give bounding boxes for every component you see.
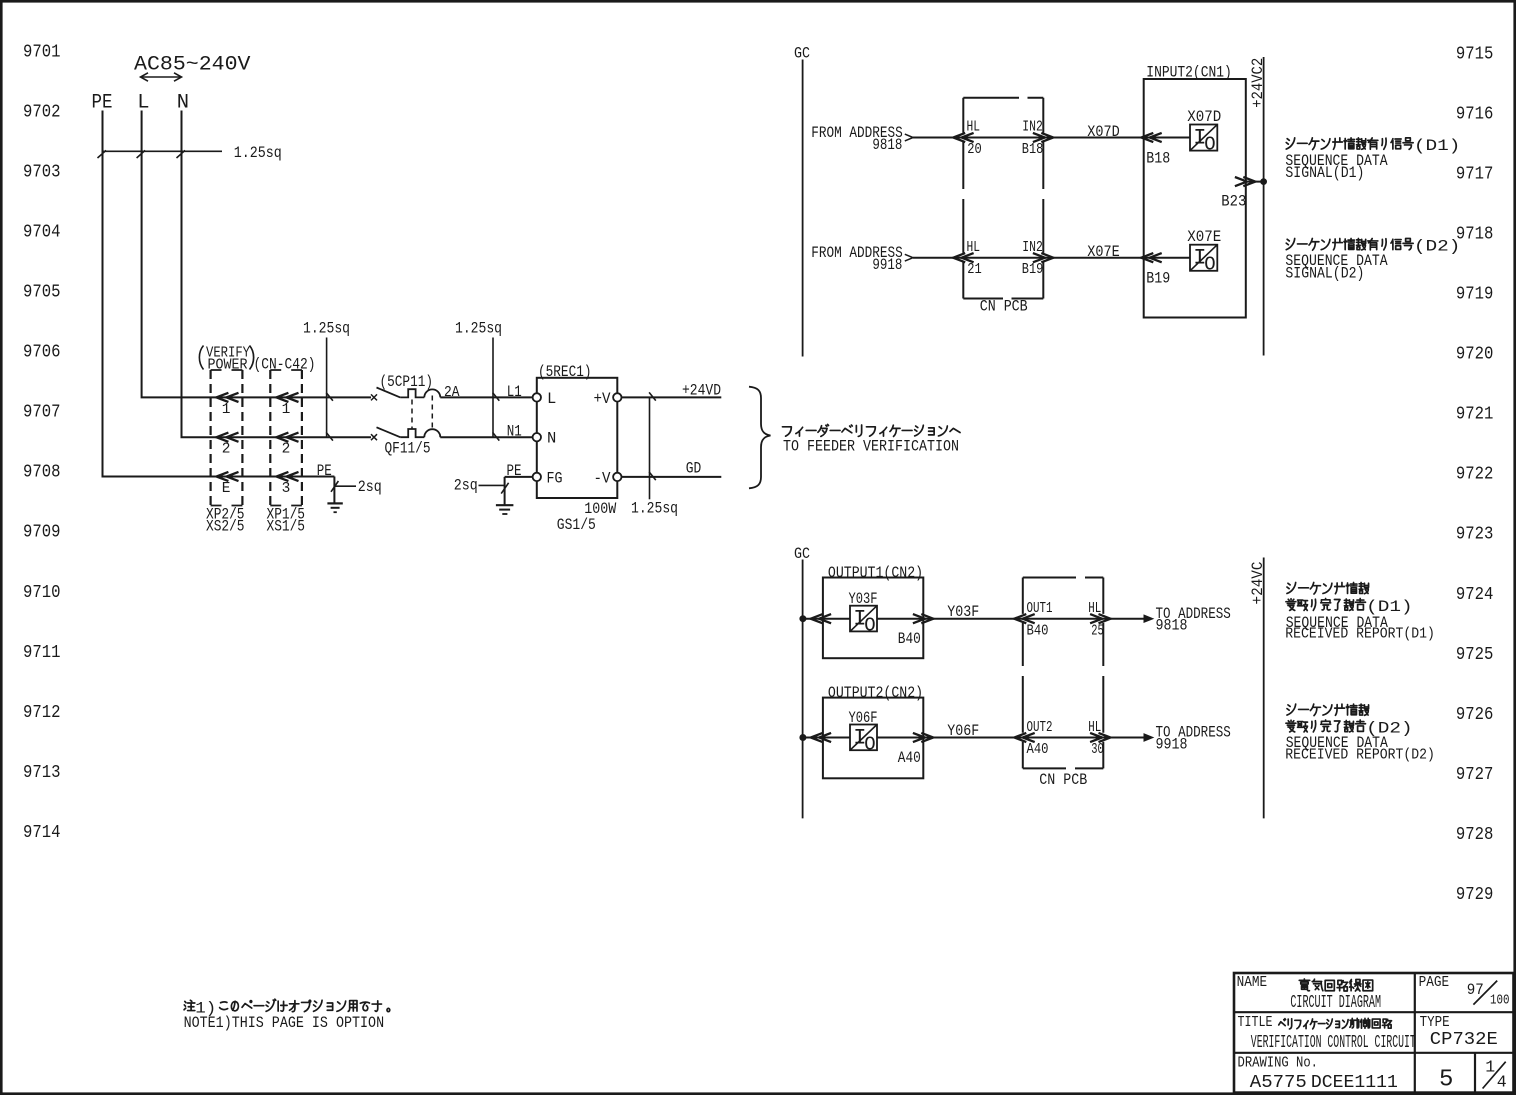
wire breaker to rectifier row1 bbox=[440, 396, 532, 398]
arrows into CN PCB bbox=[1014, 733, 1026, 742]
svg-text:TYPE: TYPE bbox=[1420, 1015, 1450, 1031]
svg-text:SIGNAL(D1): SIGNAL(D1) bbox=[1285, 164, 1364, 182]
connector contact arrows row 1 bbox=[216, 393, 228, 402]
gauge slash row1 bbox=[493, 393, 500, 401]
svg-text:B18: B18 bbox=[1146, 149, 1170, 167]
svg-text:2: 2 bbox=[222, 442, 231, 458]
arrows B23 bbox=[1235, 177, 1247, 186]
title electric circuit diagram japanese bbox=[1299, 979, 1309, 991]
svg-text:Y06F: Y06F bbox=[947, 722, 979, 740]
svg-text:Y03F: Y03F bbox=[849, 590, 878, 608]
I/O module Y03F bbox=[850, 606, 877, 632]
svg-text:+24VD: +24VD bbox=[682, 382, 721, 400]
label sequencer received D1 japanese bbox=[1287, 582, 1296, 593]
svg-text:L: L bbox=[137, 92, 149, 115]
connector contact arrows row 2 bbox=[216, 433, 228, 442]
svg-text:A40: A40 bbox=[1027, 742, 1049, 758]
label feeder verification japanese bbox=[782, 427, 791, 436]
title block horizontal divider 1 bbox=[1234, 1011, 1514, 1013]
svg-text:9726: 9726 bbox=[1456, 705, 1494, 725]
svg-text:TO FEEDER VERIFICATION: TO FEEDER VERIFICATION bbox=[783, 437, 959, 455]
junction dot on GC bus bbox=[800, 735, 806, 741]
svg-text:Y03F: Y03F bbox=[947, 603, 979, 621]
arrow from address bbox=[905, 254, 913, 261]
GC bus line bottom bbox=[802, 560, 804, 819]
breaker pole 2 contact x bbox=[371, 434, 377, 440]
connector XP2/5 XS2/5 dashed lines bbox=[210, 370, 212, 506]
svg-text:1.25sq: 1.25sq bbox=[303, 319, 350, 337]
ground symbol left bbox=[327, 502, 342, 504]
I/O module Y06F bbox=[850, 725, 877, 751]
svg-text:2: 2 bbox=[282, 442, 291, 458]
gauge slash on L wire bbox=[137, 150, 146, 158]
svg-text:O: O bbox=[1204, 254, 1215, 276]
wire gauge leader output bbox=[649, 397, 651, 499]
svg-text:(D1): (D1) bbox=[1366, 598, 1413, 616]
wire -V output bbox=[622, 476, 722, 478]
svg-text:E: E bbox=[222, 481, 231, 497]
svg-text:GD: GD bbox=[686, 459, 702, 477]
svg-text:CN PCB: CN PCB bbox=[1039, 771, 1087, 789]
svg-text:9719: 9719 bbox=[1456, 285, 1494, 305]
svg-text:B23: B23 bbox=[1221, 192, 1246, 210]
INPUT2(CN1) box bbox=[1144, 79, 1246, 318]
svg-text:L: L bbox=[547, 390, 556, 408]
wire PE vertical then row3 horizontal bbox=[103, 111, 335, 477]
output box OUTPUT1(CN2) bbox=[823, 578, 923, 659]
svg-text:2A: 2A bbox=[444, 384, 460, 401]
wire to address arrow bbox=[1103, 737, 1144, 739]
svg-text:XS2/5: XS2/5 bbox=[206, 518, 245, 536]
svg-text:OUT1: OUT1 bbox=[1027, 601, 1053, 617]
terminal circle L bbox=[533, 393, 541, 401]
svg-text:OUTPUT2(CN2): OUTPUT2(CN2) bbox=[828, 684, 923, 702]
svg-text:AC85~240V: AC85~240V bbox=[134, 54, 251, 77]
wire GC to I/O module bbox=[803, 737, 850, 739]
I/O module X07D bbox=[1190, 125, 1217, 151]
arrows into CN PCB bbox=[953, 133, 965, 142]
svg-text:1.25sq: 1.25sq bbox=[455, 319, 502, 337]
wire to CN PCB bbox=[913, 257, 963, 259]
gauge slash row1 bbox=[326, 393, 333, 401]
gauge slash row2 bbox=[493, 432, 500, 440]
svg-text:+V: +V bbox=[594, 390, 612, 408]
svg-text:X07D: X07D bbox=[1087, 123, 1120, 141]
wire breaker to rectifier row2 bbox=[440, 436, 532, 438]
svg-text:POWER: POWER bbox=[208, 356, 248, 373]
wire to address arrow bbox=[1103, 618, 1144, 620]
svg-text:OUTPUT1(CN2): OUTPUT1(CN2) bbox=[828, 564, 923, 582]
svg-text:9715: 9715 bbox=[1456, 44, 1494, 64]
svg-text:1: 1 bbox=[282, 402, 291, 418]
svg-text:1: 1 bbox=[1485, 1058, 1495, 1077]
arrows out to GC bbox=[811, 733, 823, 742]
gauge slash on PE drop right bbox=[501, 483, 508, 494]
svg-text:9708: 9708 bbox=[23, 463, 61, 483]
title block vertical divider row3 bbox=[1474, 1053, 1476, 1093]
title block outer box bbox=[1234, 973, 1514, 1093]
gauge slash row2 bbox=[326, 432, 333, 440]
svg-text:9701: 9701 bbox=[23, 42, 61, 62]
svg-text:9717: 9717 bbox=[1456, 164, 1494, 184]
svg-text:9712: 9712 bbox=[23, 703, 61, 723]
svg-text:N: N bbox=[547, 430, 556, 448]
double arrow under AC label bbox=[141, 76, 182, 78]
arrows out of output box bbox=[913, 733, 925, 742]
label sequencer data signal D1 japanese bbox=[1286, 138, 1294, 149]
svg-text:9818: 9818 bbox=[1156, 617, 1188, 635]
gauge slash GD wire bbox=[649, 472, 656, 480]
svg-text:9706: 9706 bbox=[23, 343, 61, 363]
breaker pole 2 thermal element bbox=[400, 429, 424, 437]
svg-text:(D2): (D2) bbox=[1414, 238, 1461, 256]
svg-text:PE: PE bbox=[317, 462, 332, 480]
svg-text:3: 3 bbox=[282, 481, 291, 497]
svg-text:RECEIVED REPORT(D1): RECEIVED REPORT(D1) bbox=[1285, 626, 1435, 643]
svg-text:B18: B18 bbox=[1022, 142, 1044, 158]
label (VERIFY POWER) bbox=[199, 346, 203, 370]
arrows into CN PCB bbox=[1014, 614, 1026, 623]
terminal circle N bbox=[533, 433, 541, 441]
arrows out of CN PCB bbox=[1033, 253, 1045, 262]
arrows into INPUT2 bbox=[1141, 253, 1153, 262]
svg-text:PAGE: PAGE bbox=[1419, 975, 1450, 991]
svg-text:CP732E: CP732E bbox=[1430, 1030, 1498, 1050]
svg-text:SIGNAL(D2): SIGNAL(D2) bbox=[1285, 264, 1364, 282]
svg-text:9707: 9707 bbox=[23, 403, 61, 423]
svg-text:VERIFICATION CONTROL CIRCUIT: VERIFICATION CONTROL CIRCUIT bbox=[1251, 1033, 1416, 1053]
svg-text:(5CP11): (5CP11) bbox=[380, 373, 434, 391]
svg-text:CIRCUIT DIAGRAM: CIRCUIT DIAGRAM bbox=[1290, 993, 1381, 1013]
2sq leader right bbox=[479, 484, 505, 486]
arrows out of CN PCB bbox=[1090, 733, 1102, 742]
svg-text:9711: 9711 bbox=[23, 643, 61, 663]
svg-text:9725: 9725 bbox=[1456, 645, 1494, 665]
svg-text:QF11/5: QF11/5 bbox=[385, 439, 431, 457]
gauge slash on N wire bbox=[177, 150, 186, 158]
junction dot on +24VC2 bbox=[1261, 179, 1267, 185]
wire PE drop to ground bbox=[504, 477, 506, 505]
wire module to CN PCB bbox=[877, 618, 1023, 620]
svg-text:5: 5 bbox=[1439, 1067, 1453, 1094]
svg-text:O: O bbox=[864, 734, 875, 756]
wire X07E to INPUT2 bbox=[1043, 257, 1143, 259]
output box OUTPUT2(CN2) bbox=[823, 698, 923, 779]
svg-text:OUT2: OUT2 bbox=[1027, 720, 1053, 736]
svg-text:9720: 9720 bbox=[1456, 345, 1494, 365]
svg-text:1: 1 bbox=[222, 402, 231, 418]
svg-text:2sq: 2sq bbox=[454, 476, 478, 494]
wire gauge leader 1.25sq top-left bbox=[102, 150, 222, 152]
svg-text:9704: 9704 bbox=[23, 222, 61, 242]
svg-text:B40: B40 bbox=[898, 630, 921, 648]
svg-text:(D1): (D1) bbox=[1414, 137, 1461, 155]
arrows out of CN PCB bbox=[1090, 614, 1102, 623]
connector contact arrows row 3 bbox=[216, 472, 228, 481]
svg-text:9714: 9714 bbox=[23, 823, 61, 843]
svg-text:IN2: IN2 bbox=[1022, 240, 1043, 256]
wire inside CN PCB row bbox=[963, 137, 1043, 139]
wire gauge leader 1.25sq right bbox=[492, 338, 494, 438]
bus +24VC2 bbox=[1263, 57, 1265, 356]
ground symbol at FG bbox=[496, 504, 514, 506]
wire gauge leader 1.25sq mid bbox=[326, 338, 328, 438]
breaker linkage dashed bbox=[411, 400, 413, 430]
svg-text:9722: 9722 bbox=[1456, 465, 1494, 485]
junction dot on GC bus bbox=[800, 616, 806, 622]
svg-text:HL: HL bbox=[967, 120, 981, 136]
svg-text:9723: 9723 bbox=[1456, 525, 1494, 545]
breaker pole 1 blade bbox=[377, 388, 401, 398]
svg-text:N1: N1 bbox=[507, 423, 522, 441]
svg-text:DCEE1111: DCEE1111 bbox=[1311, 1073, 1398, 1093]
wire to CN PCB bbox=[913, 137, 963, 139]
CN PCB box top bbox=[962, 98, 964, 299]
wire N vertical then row2 horizontal bbox=[182, 111, 372, 438]
breaker pole 2 magnetic arc bbox=[424, 429, 440, 437]
svg-text:B19: B19 bbox=[1146, 270, 1170, 288]
wire L vertical then row1 horizontal bbox=[142, 111, 371, 398]
svg-text:9710: 9710 bbox=[23, 583, 61, 603]
svg-text:A40: A40 bbox=[898, 749, 921, 767]
svg-text:9918: 9918 bbox=[872, 256, 902, 274]
arrows into INPUT2 bbox=[1141, 133, 1153, 142]
svg-text:21: 21 bbox=[967, 262, 982, 278]
title block horizontal divider 2 bbox=[1234, 1052, 1514, 1054]
I/O module X07E bbox=[1190, 245, 1217, 271]
breaker pole 1 contact x bbox=[371, 394, 377, 400]
svg-text:9728: 9728 bbox=[1456, 825, 1494, 845]
svg-text:NAME: NAME bbox=[1237, 975, 1268, 991]
svg-text:TITLE: TITLE bbox=[1238, 1015, 1273, 1031]
wire B23 to +24VC2 bbox=[1246, 181, 1264, 183]
svg-text:XS1/5: XS1/5 bbox=[267, 518, 306, 536]
bus +24VC bbox=[1263, 558, 1265, 819]
svg-text:9718: 9718 bbox=[1456, 224, 1494, 244]
breaker pole 2 blade bbox=[377, 427, 401, 437]
breaker pole 1 thermal element bbox=[400, 389, 424, 397]
svg-text:X07E: X07E bbox=[1187, 228, 1221, 246]
svg-text:1.25sq: 1.25sq bbox=[631, 500, 678, 518]
svg-text:Y06F: Y06F bbox=[849, 709, 878, 727]
breaker pole 1 magnetic arc bbox=[424, 389, 440, 397]
wire +V output bbox=[622, 396, 722, 398]
arrows out of output box bbox=[913, 614, 925, 623]
wire inside CN PCB row bbox=[963, 257, 1043, 259]
svg-text:-V: -V bbox=[594, 469, 612, 487]
svg-text:25: 25 bbox=[1091, 623, 1104, 639]
svg-text:9729: 9729 bbox=[1456, 885, 1494, 905]
wire FG to PE bbox=[505, 476, 533, 478]
svg-text:PE: PE bbox=[507, 462, 522, 480]
GC bus line top bbox=[802, 60, 804, 357]
svg-text:X07D: X07D bbox=[1187, 108, 1221, 126]
svg-text:DRAWING No.: DRAWING No. bbox=[1238, 1055, 1319, 1071]
svg-text:9703: 9703 bbox=[23, 162, 61, 182]
svg-text:L1: L1 bbox=[507, 383, 522, 401]
arrow from address bbox=[905, 134, 913, 141]
svg-text:A5775: A5775 bbox=[1250, 1073, 1307, 1093]
svg-text:9716: 9716 bbox=[1456, 104, 1494, 124]
svg-text:GS1/5: GS1/5 bbox=[557, 516, 596, 534]
svg-text:9727: 9727 bbox=[1456, 765, 1494, 785]
CN PCB box bottom bbox=[1022, 578, 1024, 769]
connector XP1/5 XS1/5 dashed lines bbox=[269, 370, 271, 506]
svg-text:30: 30 bbox=[1091, 742, 1104, 758]
wire left PE drop to ground bbox=[333, 477, 335, 504]
svg-text:9709: 9709 bbox=[23, 523, 61, 543]
svg-text:1.25sq: 1.25sq bbox=[234, 144, 282, 162]
svg-text:HL: HL bbox=[967, 240, 981, 256]
svg-text:O: O bbox=[864, 615, 875, 637]
svg-text:9713: 9713 bbox=[23, 763, 61, 783]
terminal circle -V bbox=[613, 473, 621, 481]
terminal circle FG bbox=[533, 473, 541, 481]
svg-text:FG: FG bbox=[547, 469, 563, 487]
brace to feeder verification bbox=[749, 387, 771, 489]
arrows out to GC bbox=[811, 614, 823, 623]
wire GC to I/O module bbox=[803, 618, 850, 620]
svg-text:4: 4 bbox=[1497, 1073, 1507, 1092]
svg-text:NOTE1)THIS PAGE IS OPTION: NOTE1)THIS PAGE IS OPTION bbox=[184, 1014, 385, 1032]
terminal circle +V bbox=[613, 393, 621, 401]
wire to I/O module bbox=[1144, 257, 1190, 259]
arrows into CN PCB bbox=[953, 253, 965, 262]
svg-text:N: N bbox=[177, 92, 189, 115]
svg-text:9702: 9702 bbox=[23, 102, 61, 122]
2sq leader left bbox=[334, 485, 356, 487]
rectifier GS1/5 box bbox=[537, 378, 618, 498]
gauge slash on PE drop left bbox=[331, 481, 338, 492]
svg-text:IN2: IN2 bbox=[1022, 120, 1043, 136]
svg-text:100: 100 bbox=[1490, 994, 1510, 1009]
svg-text:X07E: X07E bbox=[1087, 243, 1120, 261]
wire inside CN PCB bbox=[1023, 618, 1104, 620]
svg-text:B19: B19 bbox=[1022, 262, 1044, 278]
wire to I/O module bbox=[1144, 137, 1190, 139]
wire module to CN PCB bbox=[877, 737, 1023, 739]
gauge slash +24VD wire bbox=[649, 392, 656, 400]
gauge slash on PE wire bbox=[98, 150, 107, 158]
note japanese this page is option bbox=[184, 1000, 195, 1010]
wire inside CN PCB bbox=[1023, 737, 1104, 739]
svg-text:(CN-C42): (CN-C42) bbox=[254, 356, 316, 374]
svg-text:B40: B40 bbox=[1027, 623, 1049, 639]
svg-text:O: O bbox=[1204, 134, 1215, 156]
arrows out of CN PCB bbox=[1033, 133, 1045, 142]
svg-text:9724: 9724 bbox=[1456, 585, 1494, 605]
svg-text:9818: 9818 bbox=[872, 136, 902, 154]
title verification control japanese bbox=[1279, 1019, 1286, 1026]
svg-text:9918: 9918 bbox=[1156, 736, 1188, 754]
svg-text:RECEIVED REPORT(D2): RECEIVED REPORT(D2) bbox=[1285, 746, 1435, 763]
label sequencer data signal D2 japanese bbox=[1286, 238, 1294, 249]
svg-text:CN PCB: CN PCB bbox=[980, 298, 1028, 316]
svg-text:9721: 9721 bbox=[1456, 405, 1494, 425]
title block vertical divider bbox=[1414, 973, 1416, 1093]
svg-text:9705: 9705 bbox=[23, 283, 61, 303]
svg-text:2sq: 2sq bbox=[358, 478, 382, 496]
svg-text:20: 20 bbox=[967, 142, 982, 158]
label sequencer received D2 japanese bbox=[1287, 704, 1296, 715]
wire X07D to INPUT2 bbox=[1043, 137, 1143, 139]
